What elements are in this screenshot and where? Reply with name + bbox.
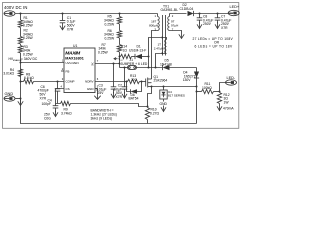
svg-text:X7R: X7R — [221, 26, 228, 30]
svg-text:25V: 25V — [98, 91, 105, 95]
connector LED- — [220, 83, 226, 92]
aux winding pin5/pin6 — [149, 38, 167, 57]
resistor R14 — [121, 54, 132, 58]
resistor R8 — [21, 81, 24, 83]
wire — [20, 63, 22, 99]
wire — [119, 24, 121, 31]
resistor R10 — [145, 108, 149, 120]
node C7 — [217, 13, 219, 15]
primary winding pin1/pin3 — [157, 14, 159, 17]
wire CS filter to sense — [71, 104, 148, 107]
wire UVLO/EN — [21, 62, 65, 64]
svg-text:130V: 130V — [183, 78, 192, 82]
svg-text:GND: GND — [87, 87, 95, 91]
wire VCC — [95, 63, 120, 65]
net label VCC — [114, 58, 118, 60]
svg-text:0.25W: 0.25W — [98, 51, 109, 55]
svg-text:C1DB-04: C1DB-04 — [180, 7, 194, 11]
diode D4 zener 1N5271 — [194, 72, 199, 79]
wire — [147, 120, 149, 124]
wire CS — [56, 89, 65, 104]
resistor R9 — [61, 101, 71, 105]
outer frame — [3, 3, 239, 129]
svg-text:US1M-13-F: US1M-13-F — [129, 49, 146, 53]
svg-text:470mA: 470mA — [223, 106, 234, 110]
wire D5 to D4 — [196, 68, 198, 124]
svg-text:X7R: X7R — [67, 27, 74, 31]
resistor R1 — [20, 14, 22, 21]
resistor R6 — [117, 31, 121, 39]
node VCC-C3 — [113, 63, 115, 65]
svg-text:GND: GND — [160, 102, 168, 106]
capacitor C6 — [57, 82, 59, 89]
jumper J1 — [120, 67, 128, 69]
wire drain — [151, 32, 153, 80]
wire — [137, 67, 163, 69]
ground IC GND pin — [95, 88, 98, 90]
resistor R7 — [117, 45, 121, 53]
wire — [20, 44, 22, 46]
svg-text:0.25W: 0.25W — [105, 37, 116, 41]
svg-text:2: 2 — [172, 14, 174, 18]
node C2 tap — [124, 67, 126, 69]
svg-text:0.27Ω: 0.27Ω — [150, 111, 160, 115]
svg-text:CC: CC — [91, 64, 94, 66]
svg-text:X7R: X7R — [40, 96, 47, 100]
svg-text:LED-: LED- — [227, 76, 236, 80]
svg-text:BAT54: BAT54 — [129, 97, 139, 101]
wire gate — [140, 81, 146, 83]
svg-text:X7R: X7R — [115, 95, 122, 99]
svg-text:GA3961-BL: GA3961-BL — [161, 8, 179, 12]
node LED- / R12 — [219, 91, 221, 93]
wire — [20, 53, 22, 63]
wire — [170, 67, 197, 69]
wire — [214, 91, 220, 93]
capacitor C3 — [113, 64, 115, 87]
svg-text:6: 6 — [97, 77, 99, 81]
transistor Q1 2SK2964 — [145, 79, 147, 87]
wire — [132, 56, 136, 58]
svg-text:UVLO/EN: UVLO/EN — [66, 61, 79, 65]
svg-text:1Ω: 1Ω — [123, 49, 128, 53]
svg-text:2SK2964: 2SK2964 — [154, 79, 168, 83]
resistor R13 — [128, 79, 140, 83]
resistor R5 — [119, 14, 121, 17]
node chain / R14 — [119, 56, 121, 58]
ground secondary return — [181, 32, 183, 39]
svg-text:800µH: 800µH — [149, 24, 158, 28]
svg-text:0.25W: 0.25W — [23, 53, 34, 57]
wire source sense row — [152, 86, 197, 88]
node UVLO divider tap — [20, 62, 22, 64]
svg-text:6.8 kΩ: 6.8 kΩ — [24, 76, 34, 80]
ground — [219, 104, 221, 111]
pin 2 stub FB — [61, 70, 64, 72]
svg-text:COMP: COMP — [66, 80, 75, 84]
svg-text:NDRV: NDRV — [85, 80, 93, 84]
capacitor C1 — [62, 14, 64, 21]
ground — [62, 23, 64, 30]
svg-text:100kΩ: 100kΩ — [202, 86, 212, 90]
svg-text:0.25W: 0.25W — [105, 22, 116, 26]
svg-text:2.47µH: 2.47µH — [154, 47, 164, 51]
svg-text:U1: U1 — [73, 44, 77, 48]
svg-text:C0G: C0G — [44, 117, 51, 121]
node bus-C1 — [62, 13, 64, 15]
wire ground rail — [21, 99, 197, 124]
wire COMP — [34, 81, 65, 83]
svg-text:1N4148: 1N4148 — [160, 62, 172, 66]
node C8 — [199, 13, 201, 15]
wire NDRV — [95, 81, 128, 83]
secondary winding pin2/pin7 — [169, 14, 171, 17]
svg-text:817 SERIES: 817 SERIES — [168, 94, 185, 98]
wire — [119, 38, 121, 45]
svg-text:7: 7 — [97, 59, 99, 63]
svg-text:CS: CS — [66, 87, 70, 91]
svg-text:1: 1 — [155, 14, 157, 18]
svg-text:20Ω: 20Ω — [131, 78, 137, 82]
resistor R4 — [18, 69, 22, 77]
svg-text:LED+: LED+ — [230, 5, 240, 9]
wire top bus — [15, 13, 157, 15]
svg-text:3kHz (9 LEDs): 3kHz (9 LEDs) — [91, 116, 113, 120]
resistor R11 — [197, 91, 202, 93]
resistor R2 — [18, 37, 22, 45]
svg-text:97µH: 97µH — [171, 24, 178, 28]
node R8 gnd — [20, 81, 22, 83]
diode D1 US1M-13-F — [134, 54, 136, 59]
capacitor C2 — [124, 68, 126, 87]
diode D6 BAT54 — [127, 82, 131, 92]
node bus-R1 — [20, 13, 22, 15]
resistor R3 — [18, 46, 22, 54]
node GND junction — [20, 98, 22, 100]
svg-text:0.25W: 0.25W — [23, 24, 34, 28]
svg-text:250V: 250V — [203, 22, 212, 26]
diode D5 1N4148 — [162, 65, 164, 70]
node R11 — [196, 91, 198, 93]
svg-text:3.01kΩ: 3.01kΩ — [3, 72, 14, 76]
ground — [20, 99, 22, 106]
svg-text:400V DC IN: 400V DC IN — [4, 5, 28, 10]
capacitor C7 — [217, 14, 219, 18]
wire source — [148, 87, 152, 108]
svg-text:100pF: 100pF — [42, 102, 51, 106]
svg-text:3.74kΩ: 3.74kΩ — [61, 112, 72, 116]
svg-text:6: 6 — [162, 51, 164, 55]
node R13 left — [126, 81, 128, 83]
svg-text:6 LEDs = UP TO 18V: 6 LEDs = UP TO 18V — [195, 45, 234, 49]
ground opto — [163, 99, 165, 102]
node R13 right — [141, 81, 143, 83]
node aux tap — [148, 56, 150, 58]
svg-text:FB: FB — [66, 70, 70, 74]
opto U4 817 SERIES — [163, 86, 165, 88]
node bus-R5 — [119, 13, 121, 15]
wire — [20, 28, 22, 37]
svg-text:1W: 1W — [224, 101, 230, 105]
core — [162, 15, 164, 56]
svg-text:0.25W: 0.25W — [23, 36, 34, 40]
svg-text:= 340V DC: = 340V DC — [21, 57, 38, 61]
capacitor C8 — [199, 14, 201, 18]
svg-text:3: 3 — [62, 77, 64, 81]
wire — [119, 52, 121, 68]
wire — [15, 98, 20, 100]
node aux pin6 — [155, 67, 157, 69]
node COMP-C6 — [57, 81, 59, 83]
wire — [142, 56, 149, 58]
resistor R12 — [217, 93, 221, 104]
svg-text:MAX16801: MAX16801 — [65, 56, 83, 60]
capacitor C4 — [55, 104, 57, 106]
